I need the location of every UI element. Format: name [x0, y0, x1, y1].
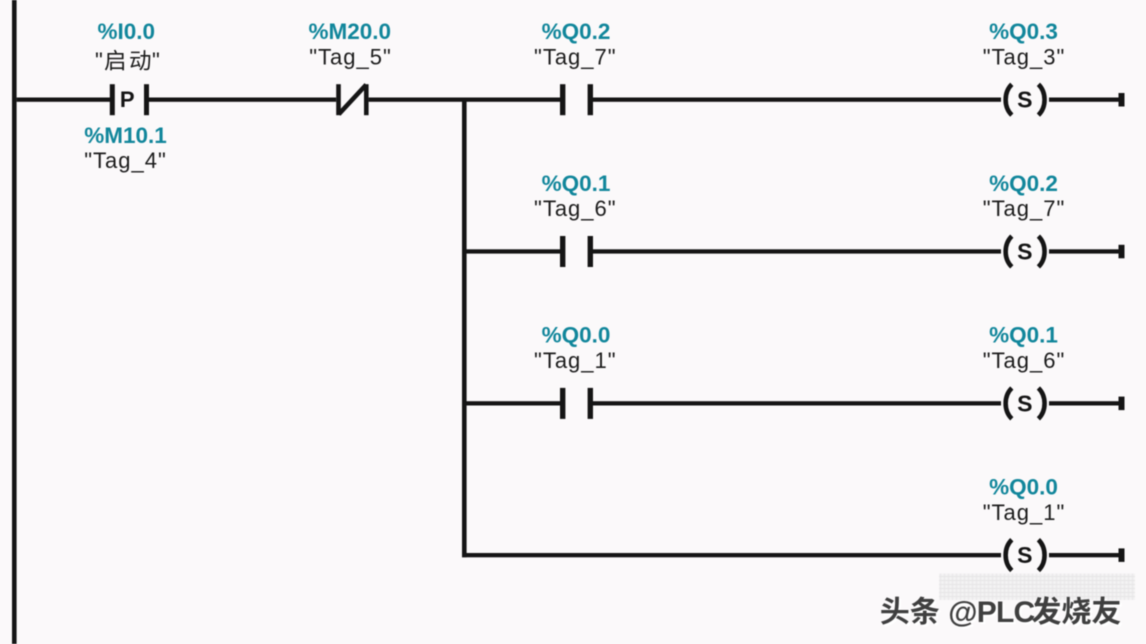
svg-text:"Tag_3": "Tag_3": [983, 44, 1066, 69]
svg-text:": ": [95, 48, 103, 73]
svg-text:"Tag_1": "Tag_1": [983, 500, 1066, 525]
svg-text:%Q0.1: %Q0.1: [989, 323, 1058, 348]
svg-text:"Tag_7": "Tag_7": [534, 44, 617, 69]
svg-text:"Tag_6": "Tag_6": [983, 348, 1066, 373]
svg-text:"Tag_6": "Tag_6": [534, 196, 617, 221]
svg-text:%Q0.2: %Q0.2: [989, 171, 1058, 196]
svg-text:"Tag_5": "Tag_5": [309, 44, 392, 69]
svg-text:%I0.0: %I0.0: [98, 19, 156, 44]
svg-text:%Q0.0: %Q0.0: [542, 323, 611, 348]
svg-text:%Q0.2: %Q0.2: [542, 19, 611, 44]
svg-text:S: S: [1017, 390, 1032, 416]
svg-text:%Q0.3: %Q0.3: [989, 19, 1058, 44]
svg-text:P: P: [120, 87, 135, 112]
svg-text:@PLC: @PLC: [948, 596, 1034, 629]
svg-text:S: S: [1017, 87, 1032, 113]
svg-text:S: S: [1017, 542, 1032, 568]
svg-text:%M10.1: %M10.1: [84, 123, 167, 148]
svg-text:"Tag_1": "Tag_1": [534, 348, 617, 373]
svg-text:": ": [152, 48, 160, 73]
svg-text:%M20.0: %M20.0: [309, 19, 392, 44]
svg-text:S: S: [1017, 239, 1032, 265]
svg-text:"Tag_7": "Tag_7": [983, 196, 1066, 221]
svg-text:%Q0.1: %Q0.1: [542, 171, 611, 196]
svg-text:"Tag_4": "Tag_4": [84, 148, 167, 173]
svg-text:%Q0.0: %Q0.0: [989, 474, 1058, 499]
